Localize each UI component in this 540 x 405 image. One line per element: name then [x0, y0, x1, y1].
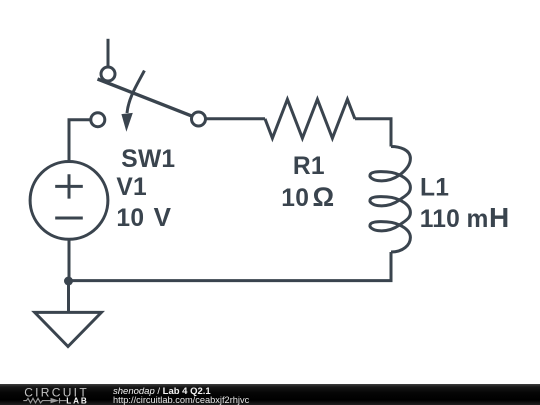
svg-text:V1: V1: [116, 174, 147, 201]
footer black bar: [0, 384, 540, 405]
V1 plus sign: [55, 174, 83, 198]
inductor L1 coil: [370, 147, 411, 253]
footer url line 2: [113, 395, 249, 405]
ground symbol triangle: [35, 312, 102, 346]
footer attribution line 1: [113, 386, 211, 397]
svg-text:10V: 10V: [116, 202, 171, 232]
svg-text:R1: R1: [293, 153, 325, 180]
switch SW1 actuation arrow: [121, 71, 144, 132]
switch SW1 right terminal: [192, 112, 206, 126]
svg-text:SW1: SW1: [121, 146, 175, 173]
CircuitLab logo: [0, 384, 100, 405]
V1 minus sign: [55, 217, 83, 220]
resistor R1 zigzag: [265, 99, 355, 138]
wire stub above switch: [107, 39, 110, 67]
wire from left terminal to V1 top: [69, 120, 91, 161]
svg-text:L1: L1: [420, 175, 449, 202]
wire switch to R1: [206, 117, 266, 120]
voltage source V1 circle: [30, 162, 108, 240]
wire L1 bottom to junction: [69, 252, 392, 281]
switch SW1 blade: [98, 79, 193, 116]
logo resistor-diode squiggle: [23, 398, 66, 403]
wire V1 bottom to junction: [68, 239, 71, 281]
svg-text:10Ω: 10Ω: [281, 182, 334, 212]
ground lead: [67, 281, 70, 312]
svg-text:110mH: 110mH: [420, 202, 510, 233]
switch SW1 top terminal: [101, 67, 115, 81]
wire R1 to L1 corner: [355, 119, 391, 147]
node junction dot: [64, 277, 73, 286]
switch SW1 left terminal: [91, 113, 105, 127]
svg-text:LAB: LAB: [66, 396, 89, 405]
